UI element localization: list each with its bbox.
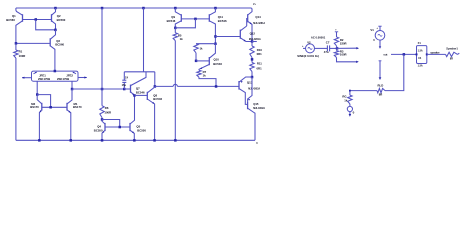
svg-text:AC 0.00001: AC 0.00001 bbox=[311, 35, 326, 39]
svg-text:Q12: Q12 bbox=[250, 32, 256, 36]
svg-text:Q14: Q14 bbox=[255, 15, 261, 19]
svg-text:15p: 15p bbox=[122, 83, 127, 87]
svg-text:1k: 1k bbox=[180, 37, 184, 41]
svg-text:BS170: BS170 bbox=[73, 105, 82, 109]
svg-text:220R: 220R bbox=[340, 41, 347, 45]
svg-text:MJL4302A: MJL4302A bbox=[248, 87, 260, 90]
svg-text:100R: 100R bbox=[19, 54, 26, 58]
svg-text:BC560: BC560 bbox=[55, 43, 64, 47]
svg-text:0: 0 bbox=[373, 38, 375, 42]
svg-text:0: 0 bbox=[256, 142, 258, 145]
svg-text:1k: 1k bbox=[200, 47, 203, 51]
svg-text:R6: R6 bbox=[105, 106, 109, 110]
svg-text:BC546: BC546 bbox=[167, 19, 176, 23]
svg-text:BC550: BC550 bbox=[94, 128, 103, 132]
svg-text:BC550: BC550 bbox=[137, 128, 146, 132]
svg-text:+: + bbox=[302, 45, 304, 48]
svg-text:0R1: 0R1 bbox=[257, 52, 263, 56]
svg-text:0R1: 0R1 bbox=[257, 67, 263, 71]
svg-text:F1: F1 bbox=[418, 42, 422, 45]
svg-text:BC546: BC546 bbox=[213, 62, 222, 66]
svg-text:BC546: BC546 bbox=[153, 97, 162, 101]
svg-text:SINE(0 0.001 1k): SINE(0 0.001 1k) bbox=[297, 54, 319, 58]
svg-text:+: + bbox=[376, 27, 378, 30]
svg-text:2SK170B: 2SK170B bbox=[38, 77, 50, 81]
svg-text:C7: C7 bbox=[326, 41, 330, 45]
svg-text:BC546: BC546 bbox=[136, 91, 145, 95]
svg-text:BC560: BC560 bbox=[57, 18, 66, 22]
svg-text:BS170: BS170 bbox=[30, 105, 39, 109]
svg-text:100R: 100R bbox=[104, 110, 111, 114]
svg-text:C4: C4 bbox=[418, 57, 422, 60]
svg-text:Speaker1: Speaker1 bbox=[446, 47, 458, 51]
svg-text:2SK170B: 2SK170B bbox=[57, 77, 69, 81]
svg-text:0: 0 bbox=[353, 111, 355, 115]
svg-text:R1: R1 bbox=[19, 49, 23, 53]
svg-text:+: + bbox=[335, 30, 337, 32]
svg-text:BC546: BC546 bbox=[218, 19, 227, 23]
svg-text:out: out bbox=[383, 53, 387, 57]
svg-text:1.5A: 1.5A bbox=[418, 49, 423, 52]
svg-text:1.5A: 1.5A bbox=[418, 64, 423, 67]
svg-text:8R: 8R bbox=[379, 92, 383, 96]
svg-text:MJL4302A: MJL4302A bbox=[253, 107, 265, 110]
svg-text:1k: 1k bbox=[344, 98, 348, 102]
svg-text:8R: 8R bbox=[450, 58, 453, 61]
svg-text:C4: C4 bbox=[125, 77, 129, 80]
svg-text:1k: 1k bbox=[203, 74, 207, 78]
svg-text:BC560: BC560 bbox=[6, 18, 15, 22]
svg-text:V1: V1 bbox=[370, 28, 374, 32]
svg-text:47u: 47u bbox=[324, 50, 329, 54]
svg-text:R11: R11 bbox=[257, 62, 262, 66]
svg-text:V2: V2 bbox=[307, 41, 311, 45]
svg-text:V+: V+ bbox=[253, 4, 257, 6]
svg-text:MJL4281A: MJL4281A bbox=[249, 38, 261, 41]
svg-text:100R: 100R bbox=[340, 53, 347, 57]
svg-text:RLD: RLD bbox=[378, 83, 384, 87]
svg-text:MJL4281A: MJL4281A bbox=[253, 22, 265, 25]
svg-text:Q15: Q15 bbox=[253, 102, 259, 106]
svg-text:speaker: speaker bbox=[430, 52, 439, 55]
